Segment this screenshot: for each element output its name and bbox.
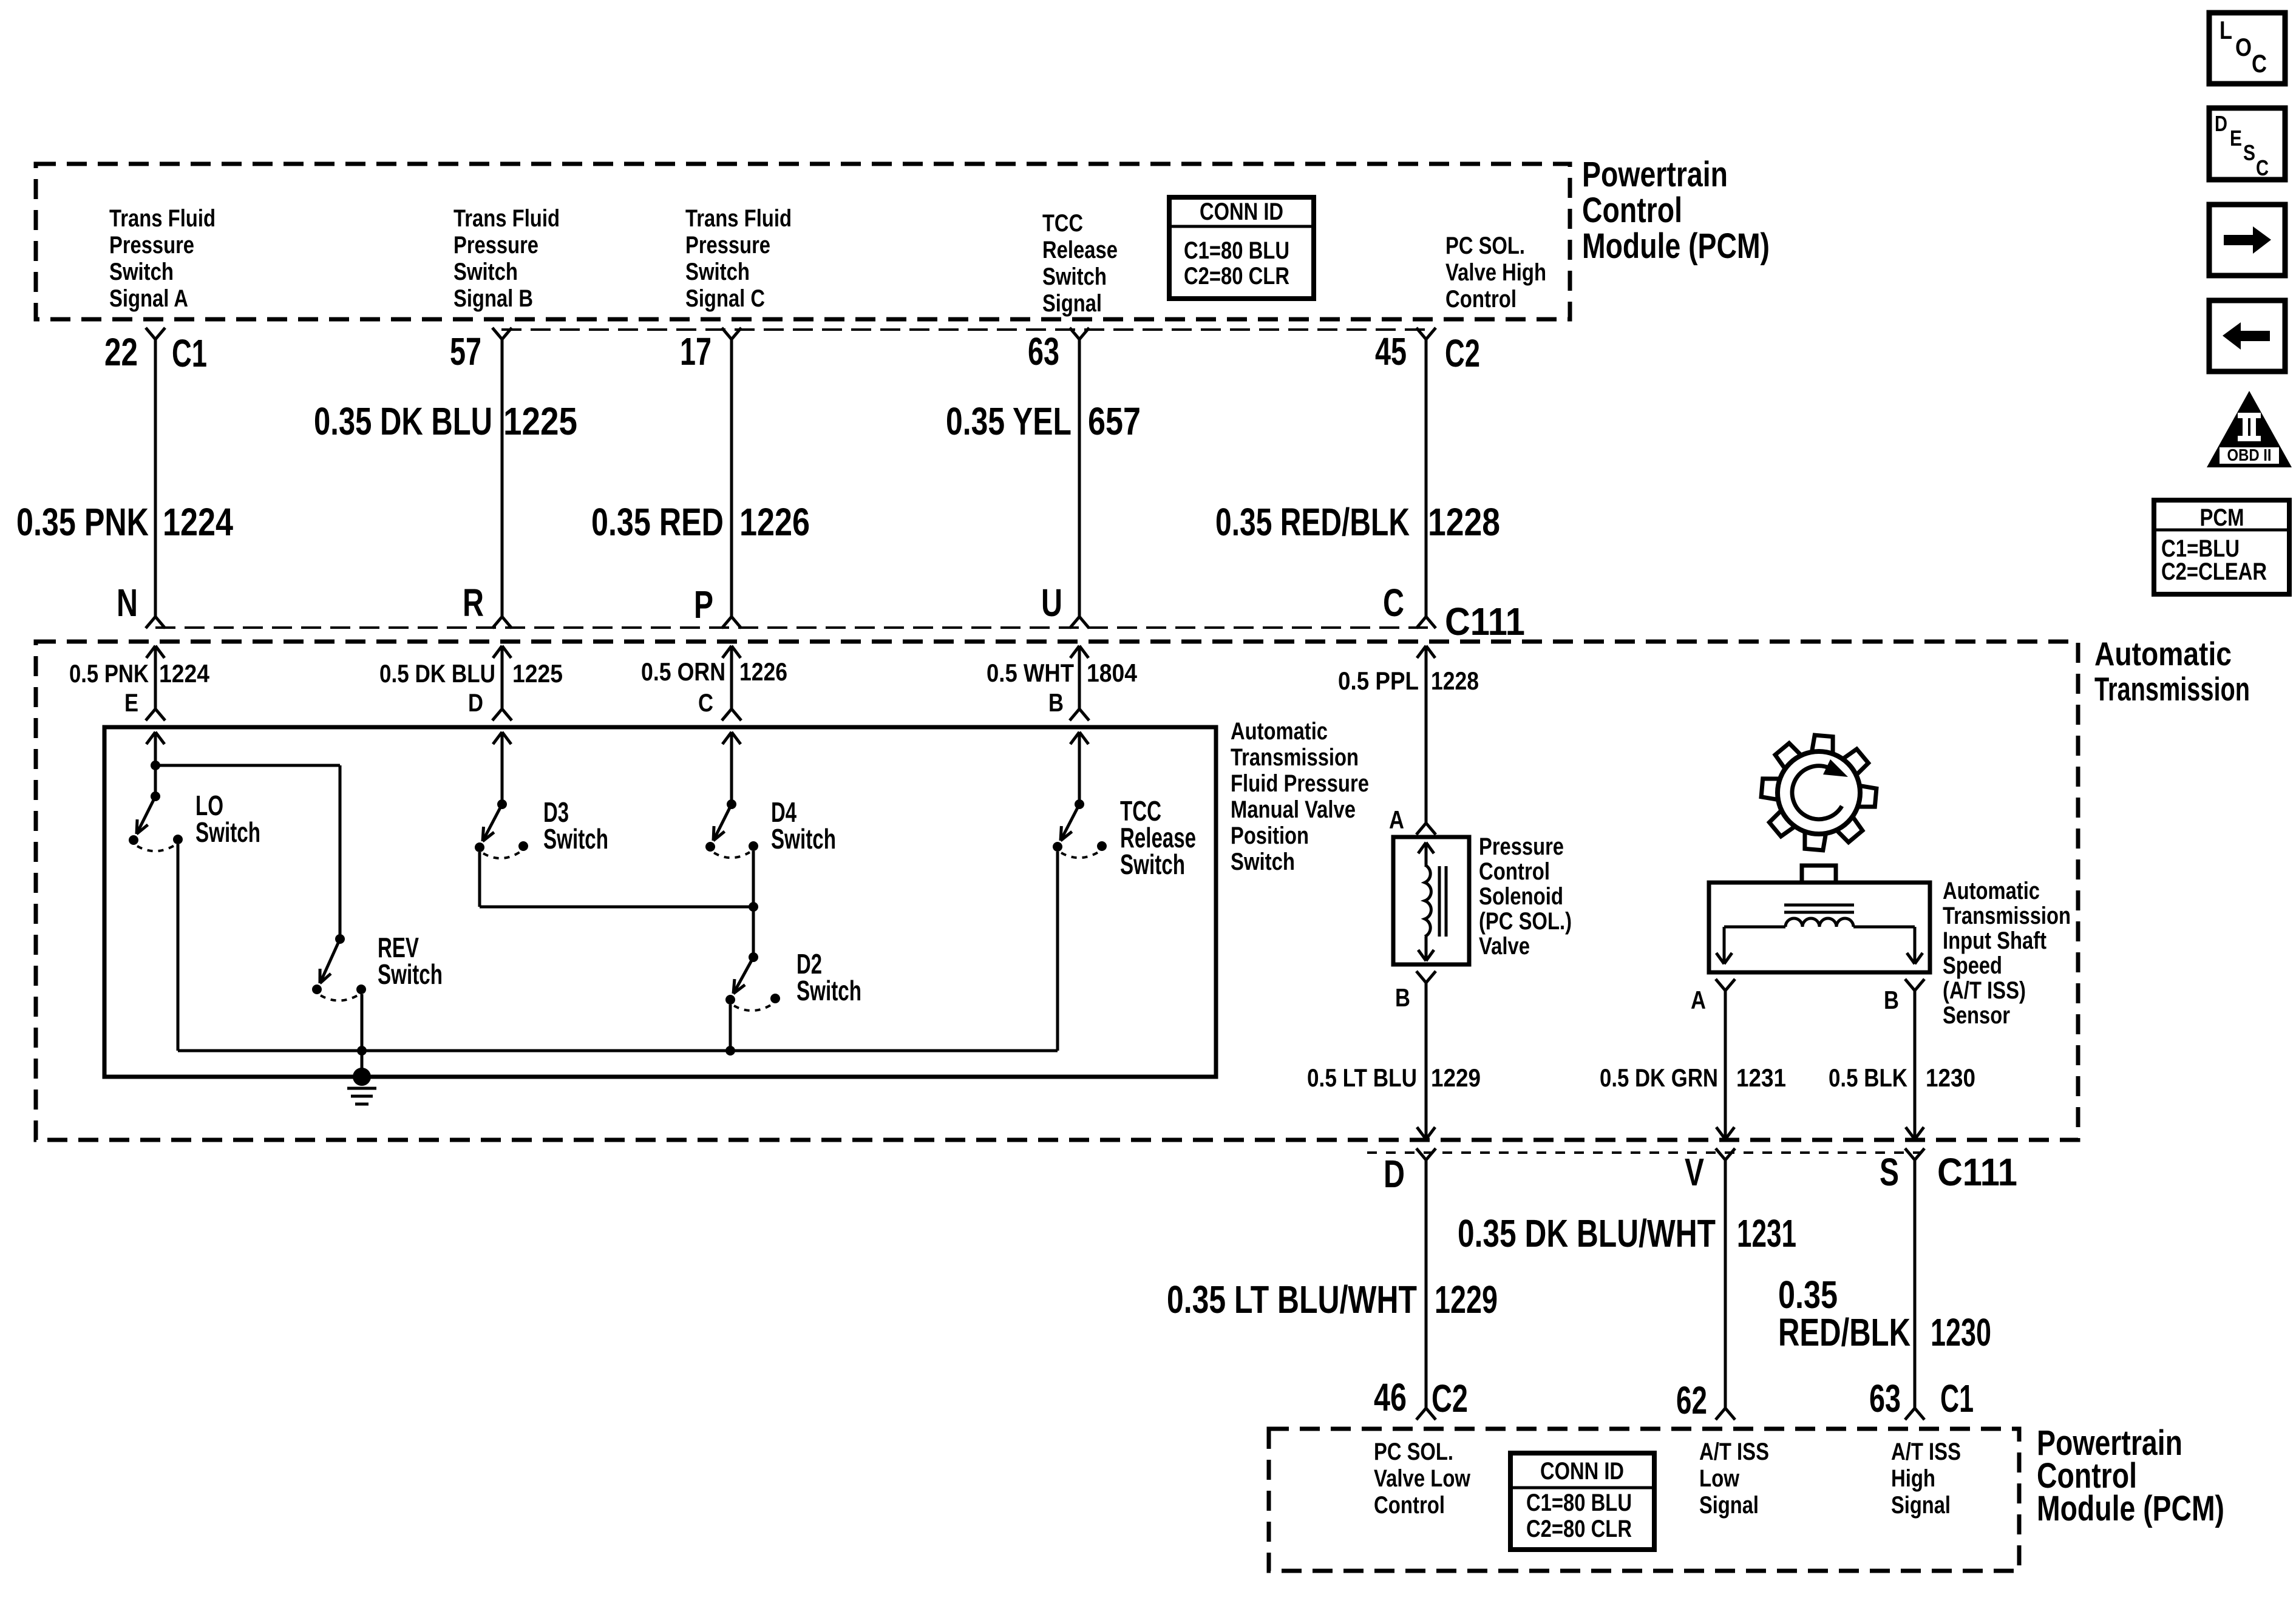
svg-text:U: U bbox=[1041, 581, 1062, 625]
svg-text:Sensor: Sensor bbox=[1943, 1002, 2010, 1029]
svg-text:R: R bbox=[463, 581, 484, 625]
svg-text:1226: 1226 bbox=[739, 657, 787, 686]
svg-text:C1: C1 bbox=[172, 331, 207, 375]
svg-text:B: B bbox=[1884, 986, 1899, 1014]
svg-text:A: A bbox=[1691, 986, 1706, 1014]
svg-text:0.5 WHT: 0.5 WHT bbox=[987, 659, 1074, 687]
svg-text:A: A bbox=[1389, 805, 1404, 834]
svg-text:CONN ID: CONN ID bbox=[1540, 1458, 1624, 1485]
svg-text:Trans Fluid: Trans Fluid bbox=[109, 205, 216, 232]
svg-text:62: 62 bbox=[1676, 1378, 1707, 1422]
svg-text:Module (PCM): Module (PCM) bbox=[2037, 1489, 2224, 1528]
svg-text:D: D bbox=[1384, 1152, 1405, 1196]
svg-text:0.5 ORN: 0.5 ORN bbox=[641, 657, 725, 686]
svg-text:S: S bbox=[1880, 1150, 1899, 1194]
svg-text:Fluid Pressure: Fluid Pressure bbox=[1231, 770, 1369, 797]
svg-text:C: C bbox=[2252, 49, 2267, 78]
svg-text:0.35 PNK: 0.35 PNK bbox=[16, 500, 149, 544]
svg-text:0.35 LT BLU/WHT: 0.35 LT BLU/WHT bbox=[1167, 1278, 1417, 1321]
svg-text:Trans Fluid: Trans Fluid bbox=[453, 205, 560, 232]
svg-text:CONN ID: CONN ID bbox=[1200, 198, 1283, 225]
svg-text:57: 57 bbox=[450, 330, 481, 373]
svg-text:C2: C2 bbox=[1445, 331, 1480, 375]
svg-text:Transmission: Transmission bbox=[1943, 903, 2071, 929]
svg-text:PC SOL.: PC SOL. bbox=[1445, 232, 1525, 259]
svg-text:Automatic: Automatic bbox=[1943, 878, 2040, 904]
svg-text:C: C bbox=[1383, 581, 1404, 625]
svg-text:0.35 RED: 0.35 RED bbox=[591, 500, 724, 544]
svg-text:0.35 YEL: 0.35 YEL bbox=[946, 399, 1072, 443]
svg-text:1224: 1224 bbox=[163, 500, 233, 544]
svg-text:Position: Position bbox=[1231, 822, 1309, 849]
svg-text:22: 22 bbox=[104, 330, 138, 374]
svg-text:Pressure: Pressure bbox=[685, 232, 770, 259]
svg-text:63: 63 bbox=[1869, 1377, 1901, 1420]
svg-text:Trans Fluid: Trans Fluid bbox=[685, 205, 792, 232]
svg-text:Switch: Switch bbox=[796, 975, 861, 1006]
svg-text:Switch: Switch bbox=[543, 823, 608, 855]
svg-text:Switch: Switch bbox=[771, 823, 836, 855]
svg-text:P: P bbox=[694, 583, 713, 626]
svg-text:S: S bbox=[2243, 140, 2255, 165]
svg-text:Switch: Switch bbox=[195, 816, 260, 848]
svg-text:Switch: Switch bbox=[1120, 849, 1185, 880]
svg-text:Pressure: Pressure bbox=[453, 232, 538, 259]
svg-text:0.5 DK GRN: 0.5 DK GRN bbox=[1600, 1063, 1718, 1092]
svg-text:D: D bbox=[468, 688, 483, 717]
svg-text:Release: Release bbox=[1042, 237, 1118, 263]
svg-text:D: D bbox=[2215, 111, 2227, 136]
svg-text:Valve High: Valve High bbox=[1445, 259, 1546, 286]
svg-text:E: E bbox=[2230, 126, 2242, 151]
svg-text:1228: 1228 bbox=[1431, 666, 1479, 695]
svg-text:Control: Control bbox=[1374, 1492, 1445, 1519]
svg-text:Pressure: Pressure bbox=[109, 232, 194, 259]
svg-text:C111: C111 bbox=[1445, 600, 1525, 643]
svg-text:Switch: Switch bbox=[1231, 849, 1295, 875]
svg-text:Signal A: Signal A bbox=[109, 285, 188, 312]
svg-text:0.5 DK BLU: 0.5 DK BLU bbox=[379, 659, 495, 688]
svg-text:RED/BLK: RED/BLK bbox=[1778, 1310, 1911, 1354]
svg-text:1231: 1231 bbox=[1737, 1212, 1796, 1255]
svg-text:17: 17 bbox=[680, 330, 712, 373]
svg-text:C2=CLEAR: C2=CLEAR bbox=[2161, 558, 2267, 585]
svg-text:Control: Control bbox=[1479, 858, 1550, 885]
svg-text:Switch: Switch bbox=[453, 259, 518, 285]
svg-text:C2: C2 bbox=[1432, 1377, 1468, 1420]
svg-text:B: B bbox=[1048, 688, 1064, 717]
svg-text:C1: C1 bbox=[1940, 1377, 1974, 1420]
svg-text:Valve Low: Valve Low bbox=[1374, 1465, 1471, 1492]
svg-text:C2=80 CLR: C2=80 CLR bbox=[1526, 1516, 1632, 1542]
svg-text:Signal C: Signal C bbox=[685, 285, 765, 312]
svg-text:0.35 DK BLU: 0.35 DK BLU bbox=[314, 399, 492, 443]
svg-text:PCM: PCM bbox=[2200, 504, 2244, 531]
svg-text:Signal: Signal bbox=[1891, 1492, 1951, 1519]
svg-text:Transmission: Transmission bbox=[1231, 744, 1359, 771]
svg-text:E: E bbox=[124, 688, 138, 717]
svg-text:Switch: Switch bbox=[109, 259, 174, 285]
svg-text:1230: 1230 bbox=[1931, 1310, 1991, 1354]
svg-text:Transmission: Transmission bbox=[2094, 670, 2250, 708]
svg-text:0.5 LT BLU: 0.5 LT BLU bbox=[1307, 1063, 1417, 1092]
svg-text:Module (PCM): Module (PCM) bbox=[1582, 226, 1770, 266]
svg-text:A/T ISS: A/T ISS bbox=[1699, 1439, 1769, 1465]
svg-text:High: High bbox=[1891, 1465, 1935, 1492]
svg-text:TCC: TCC bbox=[1042, 210, 1083, 237]
svg-text:C1=80 BLU: C1=80 BLU bbox=[1184, 237, 1289, 264]
svg-text:46: 46 bbox=[1374, 1375, 1407, 1419]
svg-text:C2=80 CLR: C2=80 CLR bbox=[1184, 263, 1289, 290]
svg-text:1229: 1229 bbox=[1435, 1278, 1498, 1321]
svg-text:C111: C111 bbox=[1937, 1150, 2017, 1194]
svg-text:Switch: Switch bbox=[685, 259, 750, 285]
svg-text:B: B bbox=[1395, 983, 1410, 1012]
svg-text:A/T ISS: A/T ISS bbox=[1891, 1439, 1961, 1465]
svg-text:(PC SOL.): (PC SOL.) bbox=[1479, 908, 1572, 935]
svg-text:L: L bbox=[2220, 16, 2232, 44]
svg-text:Signal: Signal bbox=[1699, 1492, 1759, 1519]
svg-text:1228: 1228 bbox=[1428, 500, 1500, 544]
svg-text:Solenoid: Solenoid bbox=[1479, 883, 1563, 910]
svg-text:Switch: Switch bbox=[378, 958, 443, 990]
svg-text:O: O bbox=[2235, 33, 2252, 61]
svg-text:V: V bbox=[1685, 1150, 1704, 1194]
svg-text:0.35 RED/BLK: 0.35 RED/BLK bbox=[1215, 500, 1410, 544]
svg-text:45: 45 bbox=[1375, 330, 1407, 373]
svg-text:1225: 1225 bbox=[503, 399, 577, 443]
svg-text:Switch: Switch bbox=[1042, 263, 1107, 290]
svg-text:1225: 1225 bbox=[512, 659, 563, 688]
svg-text:Pressure: Pressure bbox=[1479, 833, 1564, 860]
svg-text:N: N bbox=[117, 581, 138, 625]
svg-text:1230: 1230 bbox=[1926, 1063, 1975, 1092]
svg-text:657: 657 bbox=[1088, 399, 1141, 443]
svg-text:Signal: Signal bbox=[1042, 290, 1102, 317]
svg-text:0.5 BLK: 0.5 BLK bbox=[1829, 1063, 1907, 1092]
svg-text:1229: 1229 bbox=[1431, 1063, 1481, 1092]
svg-text:63: 63 bbox=[1028, 330, 1059, 373]
svg-text:OBD II: OBD II bbox=[2227, 446, 2272, 464]
svg-text:1804: 1804 bbox=[1087, 659, 1138, 687]
svg-text:1231: 1231 bbox=[1736, 1063, 1786, 1092]
svg-text:C: C bbox=[2256, 155, 2269, 180]
svg-text:0.35 DK BLU/WHT: 0.35 DK BLU/WHT bbox=[1458, 1212, 1716, 1255]
svg-text:Valve: Valve bbox=[1479, 933, 1530, 960]
svg-text:Automatic: Automatic bbox=[2094, 635, 2232, 673]
svg-text:0.5 PPL: 0.5 PPL bbox=[1338, 666, 1419, 695]
svg-text:C: C bbox=[698, 688, 713, 717]
svg-text:Control: Control bbox=[1582, 191, 1682, 230]
svg-text:C1=80 BLU: C1=80 BLU bbox=[1526, 1490, 1632, 1516]
svg-text:0.5 PNK: 0.5 PNK bbox=[69, 659, 149, 688]
svg-text:Speed: Speed bbox=[1943, 952, 2002, 979]
svg-text:1224: 1224 bbox=[159, 659, 210, 688]
svg-text:Low: Low bbox=[1699, 1465, 1740, 1492]
svg-text:Signal B: Signal B bbox=[453, 285, 533, 312]
svg-text:Powertrain: Powertrain bbox=[1582, 155, 1728, 194]
svg-text:Control: Control bbox=[1445, 286, 1517, 313]
svg-text:Input Shaft: Input Shaft bbox=[1943, 927, 2046, 954]
svg-text:PC SOL.: PC SOL. bbox=[1374, 1439, 1453, 1465]
svg-text:1226: 1226 bbox=[739, 500, 810, 544]
svg-text:(A/T ISS): (A/T ISS) bbox=[1943, 977, 2026, 1004]
svg-text:Automatic: Automatic bbox=[1231, 718, 1328, 745]
svg-text:Manual Valve: Manual Valve bbox=[1231, 796, 1356, 823]
